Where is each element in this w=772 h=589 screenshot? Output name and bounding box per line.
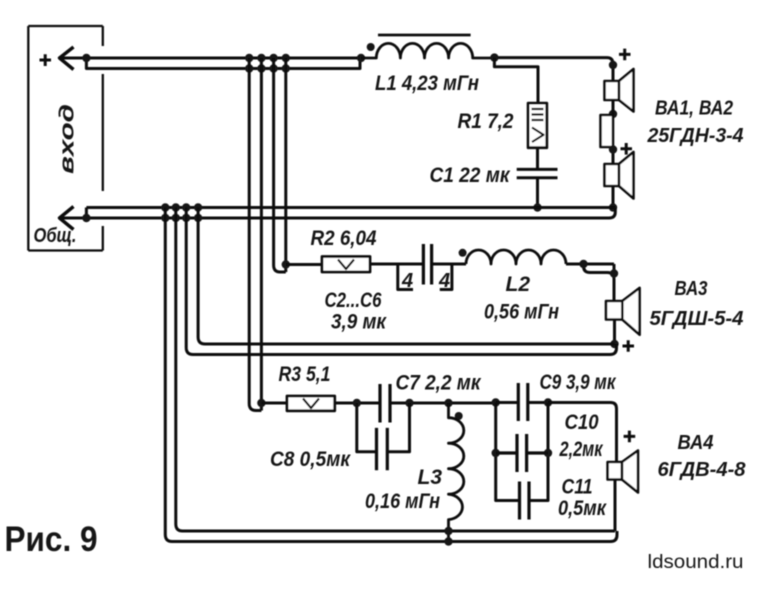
- series resistor between BA1 and BA2: [601, 115, 614, 147]
- svg-text:6ГДВ-4-8: 6ГДВ-4-8: [658, 459, 747, 481]
- wire: parallel stub feeding R1 divider: [494, 58, 538, 103]
- svg-text:Общ.: Общ.: [34, 225, 77, 247]
- svg-text:R2 6,04: R2 6,04: [311, 227, 377, 250]
- node C7 left: [353, 399, 361, 407]
- capacitor C11: [520, 482, 530, 520]
- wire: R3 to C7: [335, 402, 380, 405]
- svg-text:С7 2,2 мк: С7 2,2 мк: [396, 372, 482, 395]
- node C8 right: [405, 399, 413, 407]
- node C9 left: [492, 398, 500, 406]
- wire: bottom return upper line: [183, 530, 616, 533]
- winding start dot of L1: [367, 43, 375, 51]
- capacitor C2..C6: [423, 244, 431, 285]
- plus mark at BA4: [624, 431, 636, 443]
- svg-text:2,2мк: 2,2мк: [559, 438, 604, 461]
- resistor R3: [287, 396, 335, 411]
- svg-text:25ГДН-3-4: 25ГДН-3-4: [647, 125, 744, 147]
- node between BA1 and series resistor: [609, 110, 617, 118]
- capacitor C8 parallel arms: [357, 403, 410, 452]
- arrow head at + input terminal: [60, 47, 74, 70]
- wire: top plus bus upper line from arrow to L1: [60, 57, 362, 60]
- node L3 top: [444, 399, 452, 407]
- wire: R2 feed to resistor: [286, 263, 322, 266]
- wire: jog joining common pair at left: [85, 208, 88, 219]
- arrow head at common input terminal: [60, 207, 74, 230]
- wire: BA3 return lower line with right join: [186, 344, 616, 355]
- wire: C10/C11 left arm vertical: [496, 403, 520, 501]
- wire: C7 to L3 junction and onward: [390, 402, 496, 405]
- capacitor C1: [517, 169, 558, 177]
- wire BA2 to common bus: [612, 186, 615, 208]
- wire BA3 to return bus: [613, 320, 616, 345]
- inductor L3: [449, 403, 464, 542]
- node at R1 tap stub: [490, 53, 498, 61]
- node dots on common bus feeding return verticals: [161, 203, 202, 222]
- svg-text:С9 3,9 мк: С9 3,9 мк: [540, 371, 617, 394]
- wire: bottom return lower line with right join: [172, 531, 617, 542]
- svg-text:Рис. 9: Рис. 9: [5, 520, 98, 559]
- inductor L2: [466, 250, 566, 264]
- wire BA4 to bottom bus: [614, 480, 617, 532]
- wire: R2 to C2..C6: [370, 263, 423, 266]
- svg-text:L3: L3: [418, 466, 443, 489]
- node BA2 on common bus: [609, 203, 617, 211]
- wire BA1 to series resistor: [612, 100, 615, 115]
- loudspeaker BA1: [605, 69, 634, 112]
- plus mark at BA2: [621, 143, 633, 155]
- svg-text:ВА4: ВА4: [678, 432, 714, 454]
- inductor L1: [361, 43, 494, 58]
- node L3 bottom on both bus lines: [444, 527, 452, 535]
- wire: R1 to C1: [536, 148, 539, 170]
- bracket marker right of C2..C6: [440, 264, 452, 290]
- node after L2: [579, 260, 587, 268]
- input terminal box: [28, 26, 103, 251]
- svg-text:0,5мк: 0,5мк: [558, 497, 607, 520]
- bracket marker left of C2..C6: [398, 264, 413, 290]
- resistor R2: [322, 257, 370, 273]
- wire: doubled vertical pair return of BA4: [165, 208, 182, 542]
- node C10 left: [492, 449, 500, 457]
- plus mark at BA3: [623, 340, 635, 352]
- wire resistor to BA2: [612, 147, 615, 164]
- wire: common bus lower line from arrow, with right end join: [60, 208, 616, 219]
- svg-text:R1 7,2: R1 7,2: [458, 110, 514, 133]
- svg-text:3,9 мк: 3,9 мк: [331, 311, 387, 334]
- plus mark at BA1: [619, 49, 631, 61]
- node C9 right: [544, 398, 552, 406]
- wire: C2..C6 to L2: [432, 263, 466, 266]
- wire: between C9 plates on main line: [496, 401, 548, 404]
- capacitor C7: [380, 384, 390, 423]
- capacitor C9: [518, 383, 528, 421]
- node R2 feed: [282, 260, 290, 268]
- svg-text:ldsound.ru: ldsound.ru: [648, 551, 744, 573]
- wire: doubled vertical pair feeding R3 branch: [249, 58, 261, 411]
- loudspeaker BA2: [605, 152, 634, 199]
- wire: BA3 return upper line: [198, 337, 614, 344]
- node dots on plus bus feeding branch verticals: [245, 54, 290, 73]
- wire: common bus upper line: [86, 206, 615, 209]
- node at start of doubled common bus: [82, 214, 90, 222]
- svg-text:L1 4,23 мГн: L1 4,23 мГн: [375, 72, 479, 95]
- svg-text:4: 4: [438, 270, 450, 292]
- loudspeaker BA4: [608, 451, 638, 493]
- svg-text:ВА1, ВА2: ВА1, ВА2: [655, 98, 733, 120]
- node R3 feed: [257, 399, 265, 407]
- node C10 right: [544, 449, 552, 457]
- node C1 on common bus: [533, 203, 541, 211]
- svg-text:С2...С6: С2...С6: [325, 289, 382, 312]
- wire: top plus bus lower parallel line with end jogs: [86, 58, 360, 69]
- node above BA2: [609, 145, 617, 153]
- adjustment bar above L1: [378, 34, 471, 37]
- node at BA3 corner: [610, 269, 618, 277]
- wire: C10/C11 right arm vertical: [529, 403, 548, 501]
- svg-text:R3 5,1: R3 5,1: [279, 363, 331, 386]
- node BA3 on return: [610, 340, 618, 348]
- svg-text:4: 4: [401, 270, 413, 292]
- winding start dot of L2: [459, 249, 467, 257]
- svg-text:С11: С11: [562, 476, 593, 499]
- svg-text:0,56 мГн: 0,56 мГн: [484, 301, 559, 324]
- svg-text:С10: С10: [565, 411, 599, 434]
- node at start of doubled plus bus: [82, 54, 90, 62]
- svg-text:5ГДШ-5-4: 5ГДШ-5-4: [650, 308, 744, 330]
- svg-text:С1 22 мк: С1 22 мк: [430, 164, 511, 187]
- svg-text:L2: L2: [506, 273, 531, 296]
- wire: C1 to common bus: [536, 178, 539, 208]
- wire: C9 to BA4: [548, 403, 617, 463]
- wire: doubled vertical pair feeding R2 branch: [274, 58, 286, 272]
- loudspeaker BA3: [606, 288, 640, 335]
- wire: R3 feed to resistor: [261, 402, 287, 405]
- node where doubled bus rejoins before L1: [357, 54, 365, 62]
- capacitor C8: [377, 428, 388, 470]
- wire: doubled vertical pair return of BA3: [186, 208, 198, 348]
- wire: top line from L1 to loudspeaker chain: [494, 58, 613, 81]
- svg-text:ВА3: ВА3: [675, 278, 708, 300]
- svg-text:С8 0,5мк: С8 0,5мк: [270, 448, 351, 471]
- svg-text:вход: вход: [57, 104, 79, 174]
- resistor R1: [528, 103, 547, 148]
- winding start dot of L3: [455, 412, 463, 420]
- svg-text:0,16 мГн: 0,16 мГн: [365, 490, 440, 513]
- capacitor C10 with arms: [496, 434, 548, 472]
- wire: L2 to BA3 with doubled stub: [566, 264, 614, 301]
- plus mark at input + terminal: [40, 54, 52, 66]
- node below top-right corner: [609, 61, 617, 69]
